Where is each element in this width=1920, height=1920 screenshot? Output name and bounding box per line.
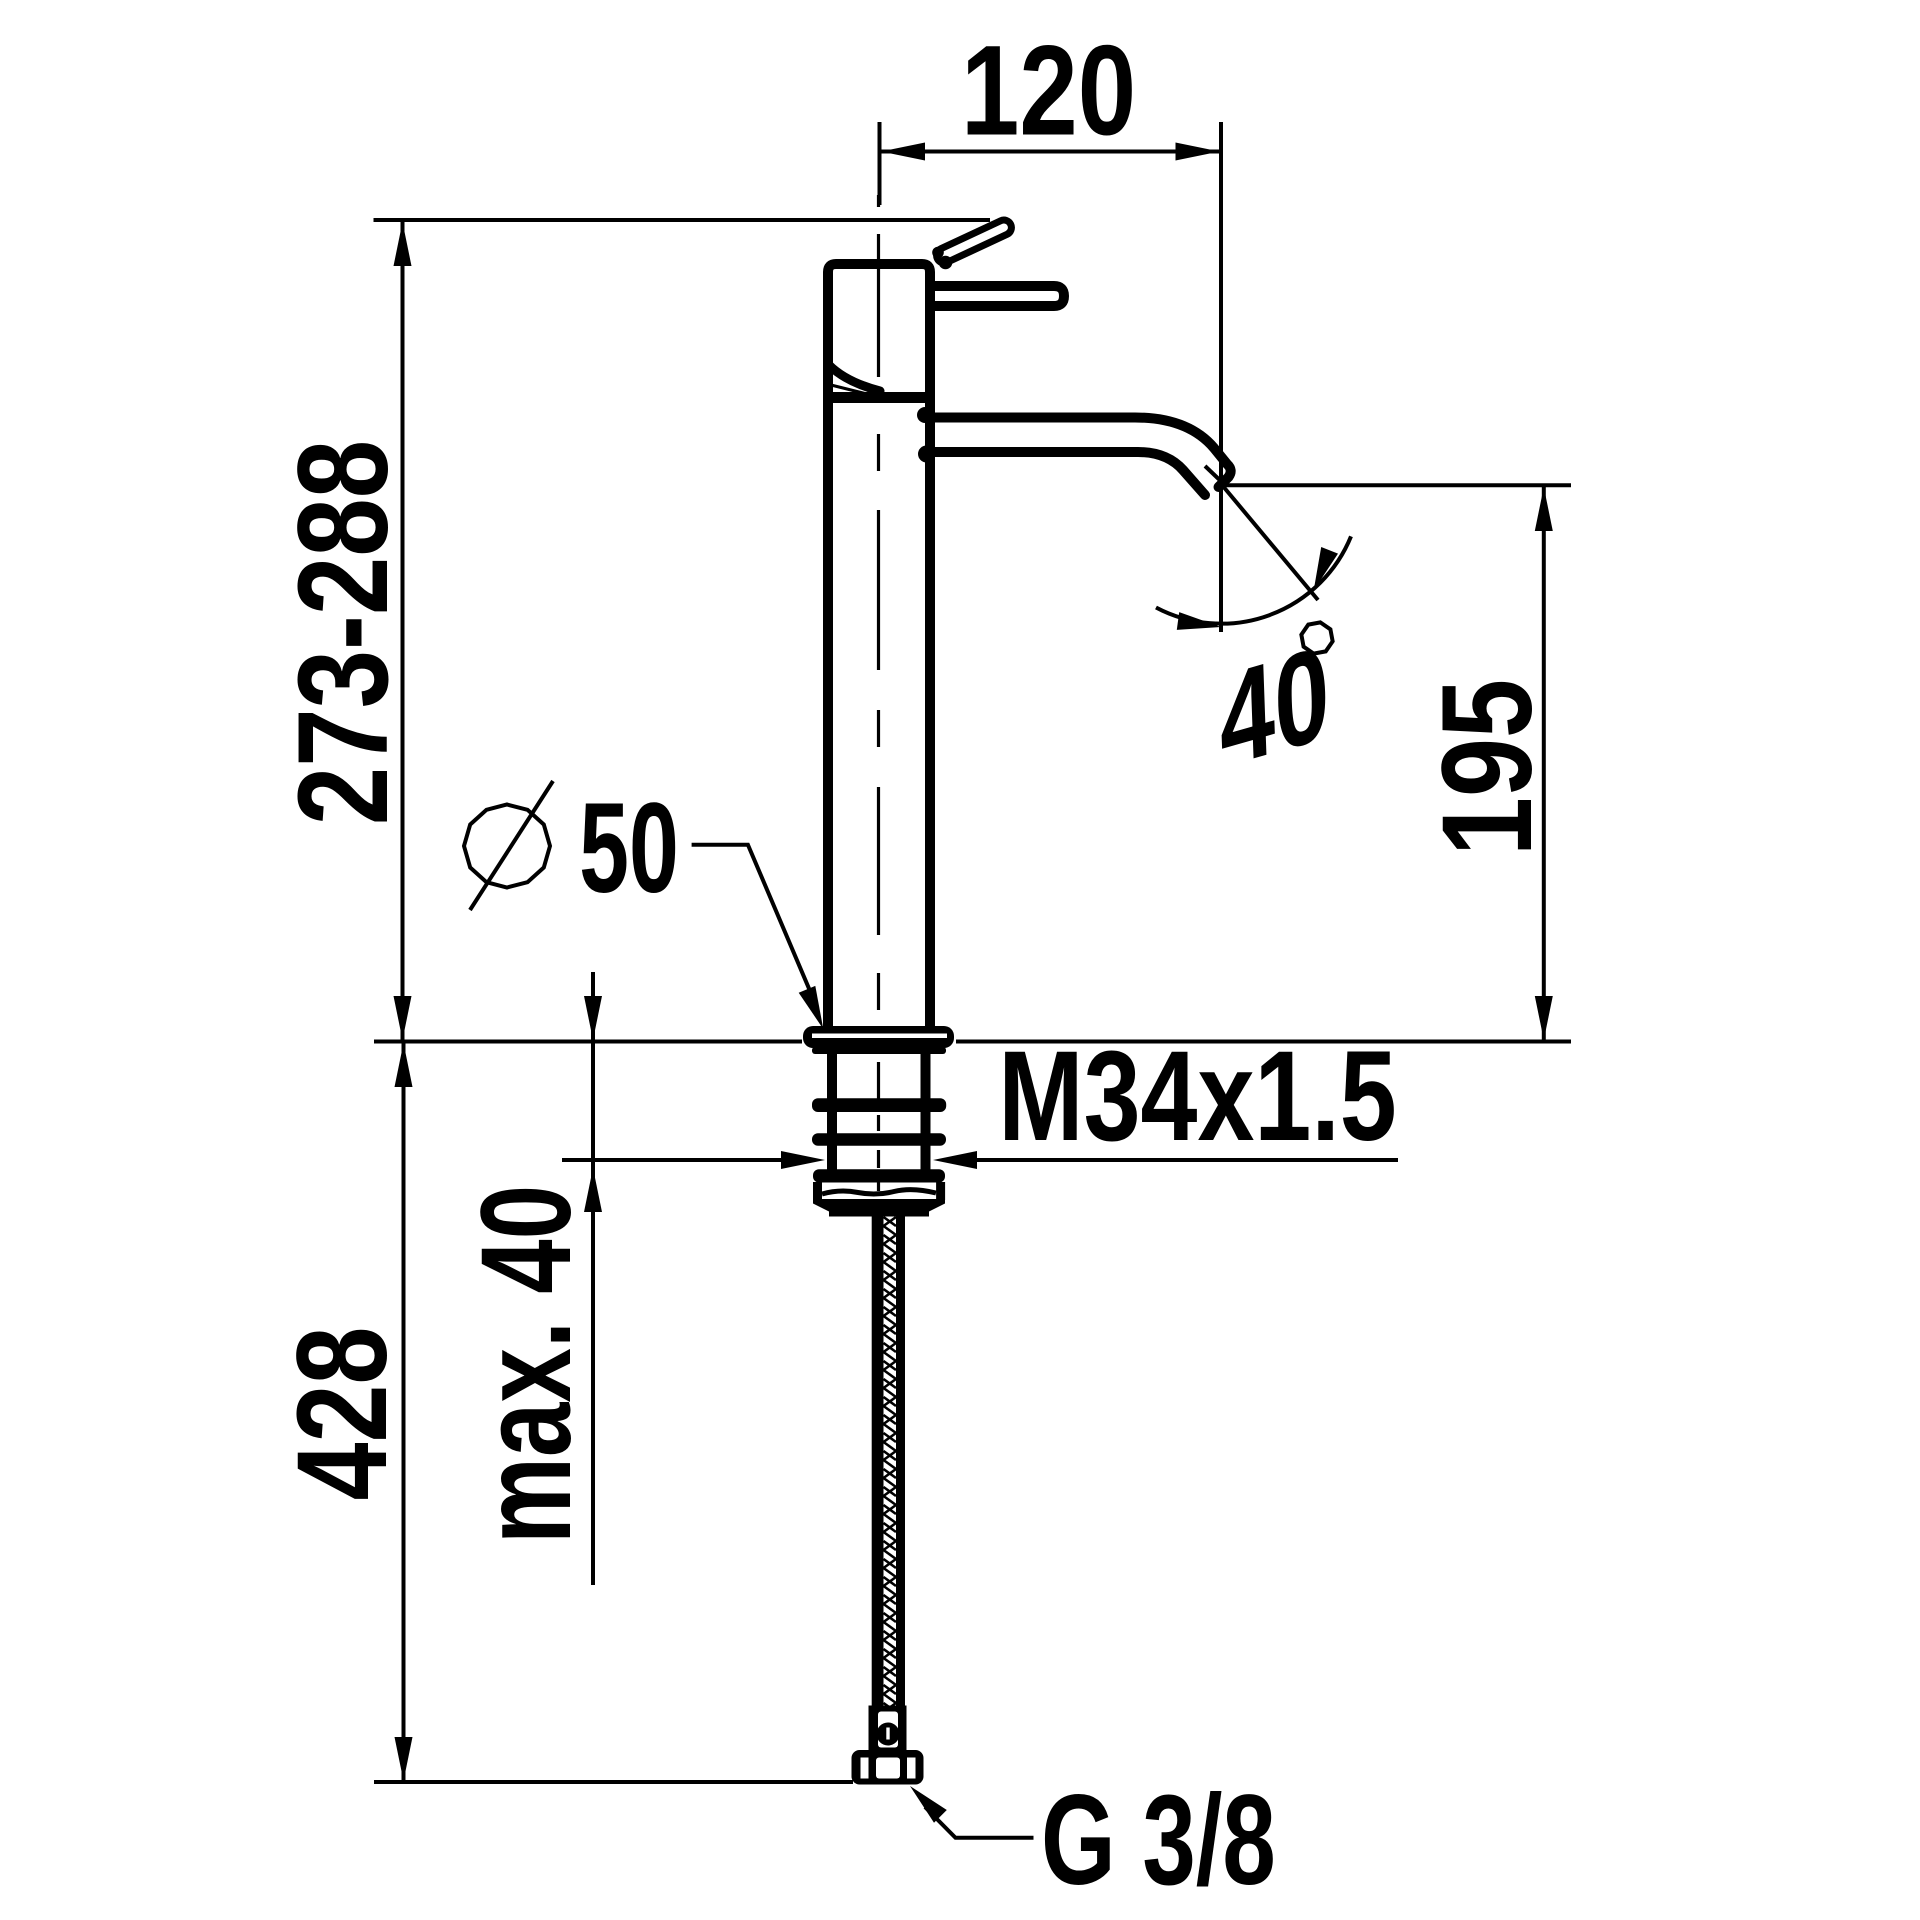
dimension 428 line [402,1043,406,1781]
dimension 195 text [1416,679,1559,856]
dimension 273-288 bottom arrow [394,996,412,1040]
40 degree arc right arrow [1314,547,1338,590]
faucet body outline (head + riser) [828,264,930,1031]
dimension 120 left arrow [881,143,925,161]
dimension 120 right arrow [1176,143,1220,161]
handle rod (horizontal lever) [930,286,1064,306]
dimension 273-288 top arrow [394,222,412,266]
dimension 428 bottom arrow [395,1737,413,1781]
dimension max.40 bottom arrow [584,1168,602,1212]
raised lever [934,218,1014,266]
lower nut left side [813,1182,822,1200]
dimension 195 top arrow [1535,487,1553,531]
diameter symbol slash [470,781,553,910]
head bottom edge [824,392,934,403]
dimension M34x1.5 left arrow [781,1151,825,1169]
dimension M34x1.5 line right [976,1158,1398,1162]
dimension 273-288 text [271,440,414,825]
diameter symbol (circle) [464,805,550,888]
dimension 428 top arrow [395,1043,413,1087]
bottom reference line (hose end) [374,1780,853,1784]
G3/8 nut [852,1750,924,1785]
40 degree angle arc [1156,536,1351,623]
dimension 273-288 line [401,222,405,1040]
svg-text:428: 428 [270,1326,414,1500]
lower nut right side [936,1182,945,1200]
svg-text:195: 195 [1416,679,1559,856]
spout bottom edge [935,452,1205,495]
spout junction dot top [917,407,933,423]
degree symbol octagon [1298,619,1336,657]
dimension max.40 top arrow [584,996,602,1040]
label 50 text [579,777,679,920]
braided hose [872,1217,905,1706]
extension line right of 120 (spout tip vertical) [1219,122,1223,632]
40 degree arc left arrow [1177,612,1221,630]
label 50 leader line [692,845,813,997]
dimension M34x1.5 line left [562,1158,782,1162]
dimension M34x1.5 text [998,1024,1396,1168]
extension line spout tip (195 top reference) [1222,483,1571,487]
40 degree text [1217,618,1332,797]
shank tube left edge [827,1048,837,1170]
label 50 leader arrow [799,986,824,1029]
G 3/8 text [1041,1769,1276,1912]
thread ring 2 [812,1098,946,1112]
dimension 195 bottom arrow [1535,996,1553,1040]
svg-text:40: 40 [1217,618,1332,797]
base flange [803,1026,954,1048]
svg-text:max. 40: max. 40 [455,1185,598,1544]
shank tube right edge [921,1048,931,1170]
G 3/8 leader line [925,1807,1034,1838]
hose end collar center tick [877,1723,900,1746]
faucet centerline [877,195,880,1191]
spout junction dot bottom [918,446,935,463]
40 degree angle leg (spout direction) [1222,485,1318,600]
dimension 120 line [881,150,1220,154]
hose end collar [869,1706,907,1751]
lower nut top bar [813,1169,945,1182]
svg-text:273-288: 273-288 [271,440,414,825]
lower nut bottom band [813,1199,945,1217]
lever hinge tab [932,247,944,259]
braided hose braid stripe [884,1217,897,1706]
lower nut bottom with break wave [822,1190,936,1194]
head cap thin diagonal [831,385,875,396]
dimension max.40 text [455,1185,598,1544]
thread ring 1 [812,1047,946,1054]
thread ring 3 [812,1133,946,1146]
svg-text:50: 50 [579,777,679,920]
base flange slit [812,1034,947,1039]
dimension M34x1.5 right arrow [933,1151,977,1169]
mounting surface line left [374,1040,802,1044]
dimension 120 text [961,19,1136,162]
G 3/8 leader arrow [910,1786,947,1823]
dimension 428 text [270,1326,414,1500]
svg-text:G 3/8: G 3/8 [1041,1769,1276,1912]
head cap swoosh [829,365,880,391]
svg-text:M34x1.5: M34x1.5 [998,1024,1396,1168]
extension line left of 120 (faucet axis) [878,122,882,205]
G3/8 nut left facet [861,1758,869,1779]
svg-text:120: 120 [961,19,1136,162]
spout top edge [930,418,1231,488]
spout mouth inner line [1205,466,1226,486]
mounting surface line right [956,1040,1571,1044]
extension line top (height reference) [374,218,991,222]
hose end collar slit [878,1712,898,1748]
dimension 195 line [1542,487,1546,1040]
G3/8 nut right facet [907,1758,916,1779]
dimension max.40 line [591,972,595,1585]
